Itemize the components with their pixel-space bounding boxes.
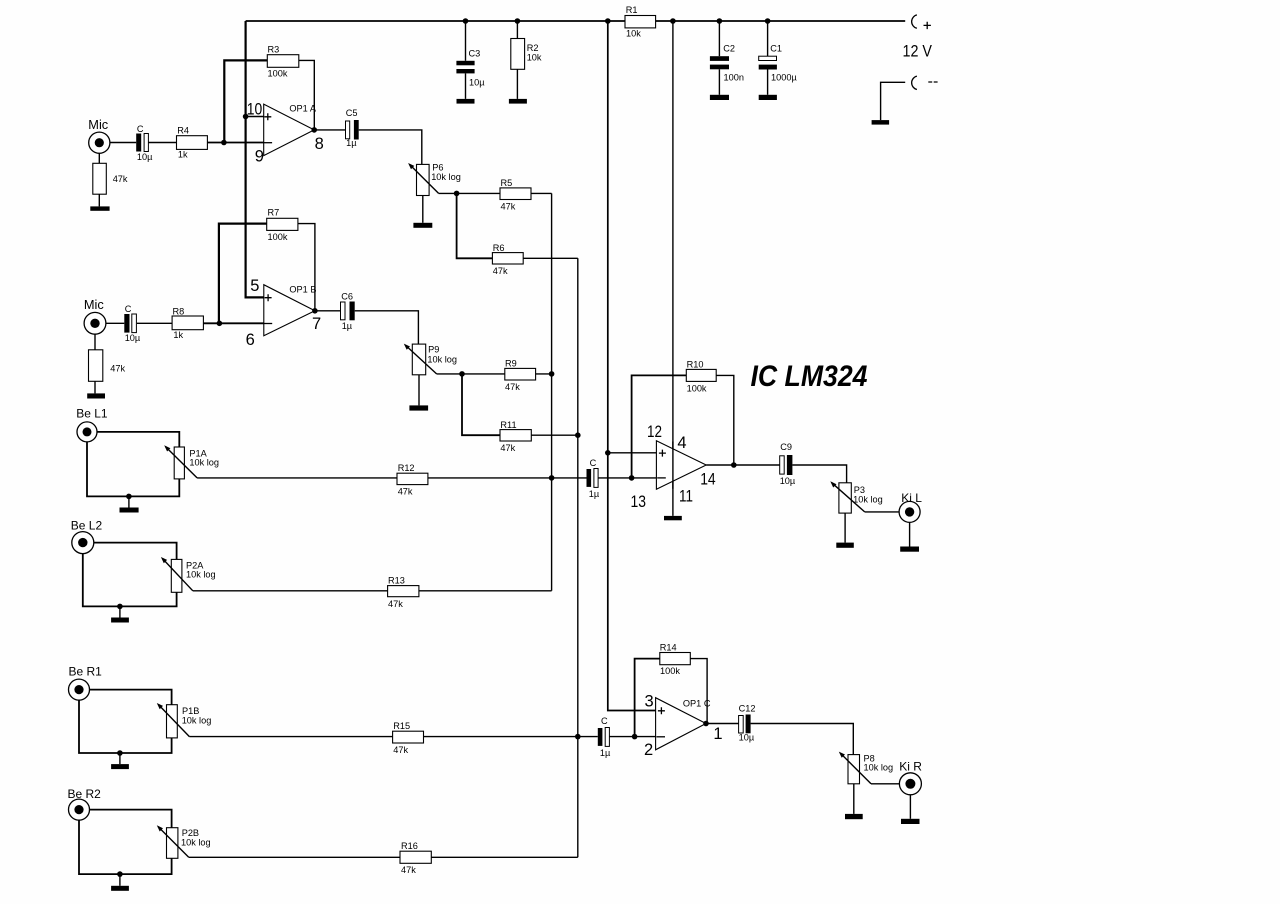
svg-text:P9: P9 bbox=[428, 344, 439, 354]
wire R11 to right sum column bbox=[531, 434, 578, 436]
capacitor C3 bbox=[456, 21, 485, 99]
resistor R3 bbox=[267, 44, 299, 78]
potentiometer P9 bbox=[404, 344, 457, 375]
svg-text:Be L2: Be L2 bbox=[71, 518, 103, 532]
svg-text:10k log: 10k log bbox=[431, 172, 461, 182]
svg-text:10µ: 10µ bbox=[780, 476, 796, 486]
svg-text:R3: R3 bbox=[268, 44, 280, 54]
wire C9 to P3 bbox=[792, 465, 846, 483]
wire R16 to right sum column bbox=[431, 856, 578, 858]
svg-text:Mic: Mic bbox=[88, 117, 109, 132]
pin 13 bbox=[631, 493, 647, 511]
svg-text:1µ: 1µ bbox=[600, 748, 611, 758]
svg-text:47k: 47k bbox=[493, 266, 508, 276]
svg-text:100k: 100k bbox=[268, 68, 288, 78]
pin 3 bbox=[645, 693, 654, 711]
svg-text:C6: C6 bbox=[341, 292, 353, 302]
wire R7 right branch to output bbox=[298, 224, 315, 311]
wire output to C6 bbox=[315, 310, 341, 312]
wire P6 wiper to node bbox=[439, 192, 457, 194]
svg-text:10k log: 10k log bbox=[181, 838, 211, 848]
wire Be R2 shield loop bbox=[79, 820, 172, 874]
pin 5 bbox=[250, 277, 259, 295]
pin 12 bbox=[647, 423, 662, 441]
wire bias column to OP1C pin3 bbox=[608, 21, 656, 711]
node rail-R2 bbox=[515, 18, 521, 24]
wire P2B wiper to R16 bbox=[189, 856, 400, 858]
wire V+ through OP1D body bbox=[672, 442, 674, 489]
connector Ki L bbox=[899, 491, 922, 522]
connector Be L2 bbox=[71, 518, 103, 553]
ground (supply return) bbox=[872, 120, 890, 125]
svg-text:OP1 B: OP1 B bbox=[289, 284, 316, 294]
text IC LM324 bbox=[751, 360, 868, 393]
resistor R16 bbox=[400, 841, 431, 875]
wire R3 right branch to output bbox=[299, 60, 315, 129]
svg-text:47k: 47k bbox=[501, 202, 516, 212]
svg-text:47k: 47k bbox=[393, 745, 408, 755]
ground (P3) bbox=[836, 513, 854, 548]
wire R8 to OP1B inverting input bbox=[203, 322, 263, 324]
wire OP1D output to C9 bbox=[706, 464, 780, 466]
svg-text:14: 14 bbox=[700, 471, 716, 489]
node Be L2 ground bbox=[117, 604, 123, 610]
potentiometer P1B bbox=[157, 703, 212, 738]
svg-text:7: 7 bbox=[312, 315, 321, 333]
node rail-C3 bbox=[463, 18, 469, 24]
connector Ki R bbox=[899, 760, 922, 795]
svg-text:10k: 10k bbox=[626, 29, 641, 39]
wire supply rail left segment bbox=[246, 20, 625, 22]
svg-text:13: 13 bbox=[631, 493, 647, 511]
wire output to C12 bbox=[706, 723, 739, 725]
potentiometer P2A bbox=[161, 557, 216, 592]
wire C to R4 bbox=[148, 142, 176, 144]
svg-text:C5: C5 bbox=[346, 108, 358, 118]
wire P1B wiper to R15 bbox=[189, 736, 392, 738]
wire bias tap to OP1A noninverting input bbox=[246, 116, 264, 118]
svg-text:10k: 10k bbox=[527, 52, 542, 62]
text 12 V bbox=[903, 43, 933, 61]
ground (Be L1) bbox=[120, 496, 139, 512]
pin 10 bbox=[247, 100, 262, 118]
op-amp OP1 B bbox=[264, 284, 317, 336]
op-amp OP1 A bbox=[264, 103, 317, 155]
capacitor C9 bbox=[780, 442, 796, 486]
node R4/R3 junction bbox=[221, 140, 227, 146]
resistor R13 bbox=[388, 575, 419, 609]
pin 1 bbox=[713, 725, 722, 743]
wire Mic1 to C bbox=[110, 142, 136, 144]
ground (pin 11) bbox=[664, 516, 682, 520]
svg-text:10µ: 10µ bbox=[469, 78, 485, 88]
wire node to R5 bbox=[457, 192, 500, 194]
svg-text:R1: R1 bbox=[626, 5, 638, 15]
svg-text:Mic: Mic bbox=[84, 297, 105, 312]
svg-text:5: 5 bbox=[250, 277, 259, 295]
ground (P8) bbox=[845, 784, 863, 819]
wire R10 left branch to inverting input bbox=[632, 375, 687, 478]
node P6 summing bbox=[454, 191, 460, 197]
ground (P9) bbox=[409, 375, 428, 411]
connector + (supply plug) bbox=[912, 15, 917, 28]
wire supply rail right segment bbox=[656, 20, 906, 22]
capacitor C (left sum 1u) bbox=[587, 458, 600, 499]
resistor R8 bbox=[172, 306, 203, 340]
resistor 47k (Mic2 load) bbox=[89, 334, 126, 393]
resistor R6 bbox=[492, 243, 523, 276]
node rail-V+ column bbox=[670, 18, 676, 24]
potentiometer P6 bbox=[408, 162, 461, 195]
svg-text:R6: R6 bbox=[493, 243, 505, 253]
wire R3 left branch bbox=[224, 60, 267, 142]
svg-text:R7: R7 bbox=[268, 208, 280, 218]
svg-text:1k: 1k bbox=[178, 150, 188, 160]
wire C to R8 bbox=[137, 322, 172, 324]
op-amp OP1 C bbox=[656, 698, 711, 750]
resistor R5 bbox=[500, 178, 531, 211]
svg-text:1: 1 bbox=[713, 725, 722, 743]
potentiometer P8 bbox=[839, 752, 893, 784]
svg-text:R15: R15 bbox=[393, 721, 410, 731]
wire right summing column bbox=[577, 258, 579, 857]
wire R13 to left sum column bbox=[419, 590, 552, 592]
wire P6 node down to R6 bbox=[457, 193, 493, 258]
svg-text:12: 12 bbox=[647, 423, 662, 441]
node R10-pin13 bbox=[629, 475, 635, 481]
svg-text:R13: R13 bbox=[388, 575, 405, 585]
wire C5 to P6 bbox=[359, 130, 422, 165]
svg-text:IC LM324: IC LM324 bbox=[751, 360, 868, 393]
ground (Ki R) bbox=[901, 795, 920, 824]
resistor 47k (Mic1 load) bbox=[93, 153, 128, 206]
svg-text:R12: R12 bbox=[398, 463, 415, 473]
capacitor C1 bbox=[759, 21, 798, 95]
pin 2 bbox=[644, 741, 653, 759]
wire bias vertical to OP1B noninverting input bbox=[246, 21, 264, 297]
svg-text:C: C bbox=[590, 458, 597, 468]
svg-text:47k: 47k bbox=[398, 487, 413, 497]
node P9 summing bbox=[459, 371, 465, 377]
svg-text:1000µ: 1000µ bbox=[771, 72, 797, 82]
wire P8 wiper to Ki R bbox=[871, 783, 899, 785]
svg-text:47k: 47k bbox=[113, 174, 128, 184]
svg-text:OP1 C: OP1 C bbox=[683, 699, 711, 709]
node OP1C output bbox=[703, 721, 709, 727]
svg-text:R5: R5 bbox=[501, 178, 513, 188]
connector Be R2 bbox=[68, 787, 102, 820]
resistor R15 bbox=[393, 721, 424, 755]
pin 8 bbox=[315, 135, 324, 153]
wire Be L1 shield loop bbox=[87, 442, 179, 497]
node bias-OP1D bbox=[605, 450, 611, 456]
svg-text:R14: R14 bbox=[660, 642, 677, 652]
wire P3 wiper to Ki L bbox=[865, 511, 899, 513]
svg-text:1µ: 1µ bbox=[342, 321, 353, 331]
svg-text:100k: 100k bbox=[660, 666, 680, 676]
potentiometer P3 bbox=[830, 481, 882, 513]
svg-text:C: C bbox=[137, 124, 144, 134]
wire left summing column bbox=[551, 193, 553, 590]
wire R6 to right sum column bbox=[523, 257, 578, 259]
ground (Be R1) bbox=[111, 753, 129, 769]
wire R10 right branch to output bbox=[716, 375, 734, 465]
svg-text:47k: 47k bbox=[110, 364, 125, 374]
wire supply return bbox=[881, 82, 906, 120]
svg-text:1k: 1k bbox=[173, 330, 183, 340]
wire cap to OP1D inverting input bbox=[598, 477, 656, 479]
capacitor C2 bbox=[710, 21, 744, 95]
ground (Be L2) bbox=[111, 606, 129, 622]
wire C6 to P9 bbox=[355, 311, 419, 344]
svg-text:47k: 47k bbox=[505, 382, 520, 392]
ground (C3) bbox=[457, 99, 475, 104]
pin 9 bbox=[255, 148, 264, 166]
wire P9 wiper to node bbox=[437, 373, 462, 375]
potentiometer P2B bbox=[157, 825, 211, 858]
svg-text:3: 3 bbox=[645, 693, 654, 711]
ground (Ki L) bbox=[900, 522, 919, 551]
wire Be R1 shield loop bbox=[79, 700, 172, 753]
ground (Mic2 47k) bbox=[87, 393, 105, 398]
wire R5 to left sum column bbox=[531, 192, 552, 194]
resistor R2 bbox=[511, 21, 542, 99]
svg-text:10: 10 bbox=[247, 100, 262, 118]
svg-text:10k log: 10k log bbox=[186, 569, 216, 579]
node R8/R7 junction bbox=[217, 321, 223, 327]
capacitor C6 bbox=[341, 292, 355, 332]
resistor R10 bbox=[686, 359, 716, 393]
svg-text:12 V: 12 V bbox=[903, 43, 933, 61]
node Be L1 ground bbox=[126, 494, 132, 500]
resistor R1 bbox=[625, 5, 656, 39]
svg-text:R11: R11 bbox=[500, 420, 516, 430]
wire R7 left branch bbox=[219, 224, 267, 324]
pin 6 bbox=[246, 331, 255, 349]
svg-text:11: 11 bbox=[679, 487, 693, 505]
connector Mic 2 bbox=[84, 297, 106, 334]
op-amp OP1 D bbox=[656, 441, 706, 490]
svg-text:10µ: 10µ bbox=[125, 333, 141, 343]
resistor R9 bbox=[505, 359, 536, 392]
node plus label bbox=[924, 22, 931, 29]
connector -- (supply return plug) bbox=[912, 76, 917, 89]
node minus label bbox=[928, 81, 937, 83]
svg-text:C1: C1 bbox=[770, 44, 782, 54]
svg-text:C2: C2 bbox=[723, 44, 735, 54]
svg-text:6: 6 bbox=[246, 331, 255, 349]
ground (C1) bbox=[759, 95, 777, 100]
wire P9 node down to R11 bbox=[462, 374, 500, 435]
svg-text:47k: 47k bbox=[401, 865, 416, 875]
svg-text:Ki R: Ki R bbox=[899, 760, 922, 774]
ground (Mic1 47k) bbox=[90, 206, 109, 210]
svg-text:P6: P6 bbox=[432, 162, 443, 172]
svg-text:10k log: 10k log bbox=[864, 763, 894, 773]
svg-text:100k: 100k bbox=[687, 384, 707, 394]
wire bias tap to OP1D noninverting input bbox=[608, 452, 657, 454]
node Be R1 ground bbox=[117, 750, 123, 756]
node rail-bias column bbox=[605, 18, 611, 24]
node OP1B output bbox=[312, 308, 318, 314]
svg-text:Be L1: Be L1 bbox=[76, 406, 108, 420]
svg-text:10k log: 10k log bbox=[182, 715, 212, 725]
node R11-right column bbox=[575, 432, 581, 438]
svg-text:R9: R9 bbox=[505, 359, 517, 369]
svg-text:C9: C9 bbox=[780, 442, 792, 452]
node rail-C2 bbox=[717, 18, 723, 24]
wire P1A wiper to R12 bbox=[197, 477, 397, 479]
svg-text:R10: R10 bbox=[687, 359, 704, 369]
wire R15 to pin2 cap bbox=[424, 736, 598, 738]
svg-text:Be R2: Be R2 bbox=[68, 787, 102, 801]
pin 7 bbox=[312, 315, 321, 333]
connector Be R1 bbox=[69, 664, 103, 700]
svg-text:R4: R4 bbox=[177, 125, 189, 135]
svg-text:9: 9 bbox=[255, 148, 264, 166]
ground (P6) bbox=[413, 196, 432, 228]
node OP1A output bbox=[311, 127, 317, 133]
svg-text:10k log: 10k log bbox=[853, 494, 883, 504]
wire R9 to left sum column bbox=[536, 373, 552, 375]
svg-text:47k: 47k bbox=[500, 443, 515, 453]
wire Be L1 to P1A top bbox=[97, 432, 179, 447]
node R10-output bbox=[731, 462, 737, 468]
svg-text:OP1 A: OP1 A bbox=[289, 103, 316, 113]
node rail-C1 bbox=[765, 18, 771, 24]
svg-text:47k: 47k bbox=[388, 599, 403, 609]
potentiometer P1A bbox=[164, 445, 219, 479]
pin 14 bbox=[700, 471, 716, 489]
ground (C2) bbox=[710, 95, 729, 100]
wire P2A wiper to R13 bbox=[193, 590, 388, 592]
pin 4 bbox=[677, 434, 686, 452]
capacitor C5 bbox=[346, 108, 359, 148]
capacitor C (Mic1 input 10u) bbox=[136, 124, 153, 162]
wire R14 right branch to output bbox=[690, 659, 707, 724]
svg-text:8: 8 bbox=[315, 135, 324, 153]
svg-text:100n: 100n bbox=[724, 72, 744, 82]
capacitor C12 bbox=[739, 703, 756, 742]
capacitor C (right sum 1u) bbox=[598, 716, 611, 758]
node bias-OP1A bbox=[243, 114, 249, 120]
svg-text:R16: R16 bbox=[401, 841, 418, 851]
svg-text:2: 2 bbox=[644, 741, 653, 759]
wire Mic2 to C bbox=[106, 322, 124, 324]
node Be R2 ground bbox=[117, 871, 123, 877]
wire V+ pin4 to pin11 ground bbox=[672, 21, 674, 516]
ground (Be R2) bbox=[111, 874, 129, 891]
node R12-left column bbox=[549, 475, 555, 481]
connector Mic 1 bbox=[88, 117, 110, 153]
svg-text:10µ: 10µ bbox=[137, 152, 153, 162]
wire R14 left branch to inverting input bbox=[635, 659, 660, 737]
resistor R7 bbox=[267, 208, 298, 243]
svg-text:4: 4 bbox=[677, 434, 686, 452]
node R9-left column bbox=[549, 371, 555, 377]
wire cap to OP1C inverting input bbox=[609, 736, 655, 738]
wire Be R1 to P1B top bbox=[90, 690, 172, 705]
wire C12 to P8 bbox=[751, 724, 854, 755]
svg-text:1µ: 1µ bbox=[589, 489, 600, 499]
svg-text:10k log: 10k log bbox=[189, 458, 219, 468]
node R14-pin2 bbox=[632, 734, 638, 740]
wire Be L2 to P2A top bbox=[94, 543, 177, 560]
svg-text:R8: R8 bbox=[173, 306, 185, 316]
wire R12 to pin13 cap bbox=[428, 477, 587, 479]
svg-text:C: C bbox=[601, 716, 608, 726]
resistor R12 bbox=[397, 463, 428, 497]
wire R4 to OP1A inverting input bbox=[207, 142, 263, 144]
svg-text:C3: C3 bbox=[469, 48, 481, 58]
wire Be R2 to P2B top bbox=[90, 810, 172, 828]
wire Be L2 shield loop bbox=[83, 554, 177, 607]
svg-text:10µ: 10µ bbox=[739, 733, 755, 743]
svg-text:100k: 100k bbox=[268, 232, 288, 242]
ground (R2) bbox=[509, 99, 527, 104]
resistor R11 bbox=[500, 420, 531, 453]
svg-text:C: C bbox=[125, 304, 132, 314]
node R15-right column bbox=[575, 734, 581, 740]
resistor R14 bbox=[660, 642, 691, 676]
pin 11 bbox=[679, 487, 693, 505]
resistor R4 bbox=[177, 125, 208, 159]
svg-text:1µ: 1µ bbox=[346, 138, 357, 148]
svg-text:Be R1: Be R1 bbox=[69, 664, 103, 678]
wire output to C5 bbox=[314, 129, 345, 131]
wire node to R9 bbox=[462, 373, 505, 375]
connector Be L1 bbox=[76, 406, 108, 442]
svg-text:C12: C12 bbox=[739, 703, 756, 713]
capacitor C (Mic2 input 10u) bbox=[124, 304, 141, 343]
svg-text:10k log: 10k log bbox=[427, 355, 457, 365]
